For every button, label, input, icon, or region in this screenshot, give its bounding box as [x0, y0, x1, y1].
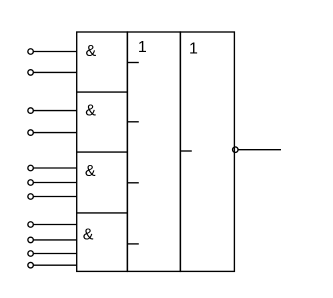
- OR gate U5 box: [127, 32, 180, 271]
- AND-gate column box: [77, 32, 128, 271]
- OR gate U6 box: [180, 32, 234, 271]
- input terminal E1: [28, 49, 77, 55]
- input terminal E2: [28, 70, 77, 76]
- OR U5 input pin stub from gate 2: [127, 121, 138, 123]
- svg-text:&: &: [85, 163, 96, 180]
- input terminal E9: [28, 237, 77, 243]
- input terminal E7: [28, 194, 77, 200]
- svg-text:&: &: [86, 43, 97, 60]
- OR U5 input pin stub from gate 3: [127, 182, 138, 184]
- divider gate1/gate2: [77, 91, 128, 93]
- svg-text:&: &: [83, 227, 94, 244]
- OR U5 input pin stub from gate 1: [127, 62, 138, 64]
- svg-text:1: 1: [138, 39, 147, 56]
- input terminal E10: [28, 251, 77, 257]
- svg-text:1: 1: [189, 41, 198, 58]
- divider gate3/gate4: [77, 212, 128, 214]
- svg-text:&: &: [85, 103, 96, 120]
- input terminal E8: [28, 222, 77, 228]
- OR U6 input pin stub: [180, 150, 191, 152]
- input terminal E6: [28, 180, 77, 186]
- input terminal E5: [28, 165, 77, 171]
- OR U5 input pin stub from gate 4: [127, 243, 138, 245]
- input terminal E11: [28, 262, 77, 268]
- input terminal E4: [28, 130, 77, 136]
- output terminal A: [233, 147, 281, 153]
- divider gate2/gate3: [77, 151, 128, 153]
- input terminal E3: [28, 108, 77, 114]
